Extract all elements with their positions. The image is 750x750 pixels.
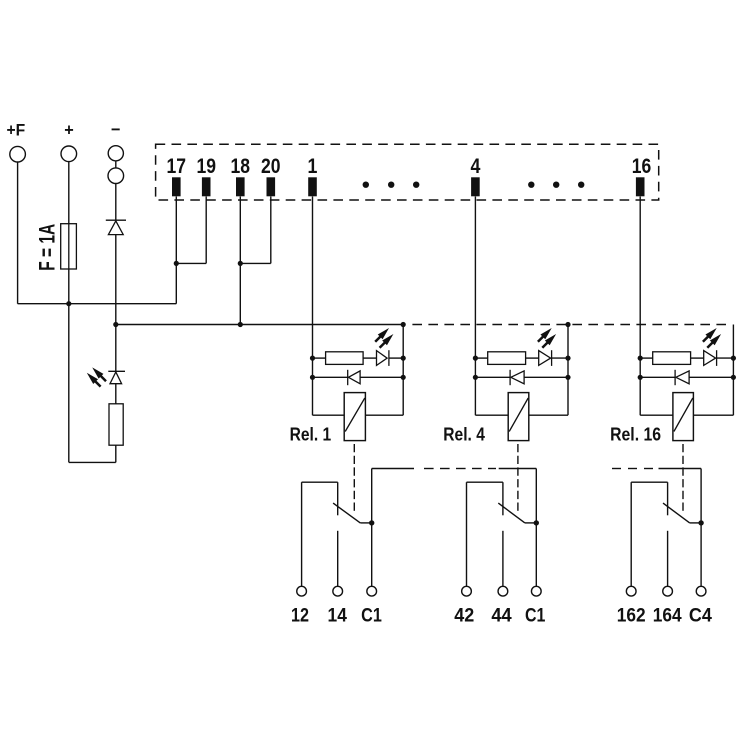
svg-text:+F: +F: [7, 121, 26, 140]
svg-text:1: 1: [308, 155, 318, 178]
svg-text:Rel. 16: Rel. 16: [610, 425, 661, 445]
svg-text:C1: C1: [361, 605, 382, 626]
svg-text:20: 20: [261, 155, 281, 178]
svg-text:18: 18: [231, 155, 251, 178]
svg-text:16: 16: [632, 155, 652, 178]
svg-text:19: 19: [196, 155, 216, 178]
svg-text:14: 14: [328, 605, 348, 626]
svg-text:C1: C1: [525, 605, 546, 626]
svg-text:164: 164: [653, 605, 682, 626]
svg-text:12: 12: [291, 605, 309, 626]
svg-text:−: −: [111, 120, 121, 139]
svg-text:162: 162: [617, 605, 646, 626]
svg-text:44: 44: [491, 605, 512, 626]
svg-text:17: 17: [167, 155, 187, 178]
svg-text:+: +: [64, 121, 74, 140]
svg-text:42: 42: [454, 605, 474, 626]
svg-text:F = 1A: F = 1A: [34, 224, 59, 271]
svg-text:C4: C4: [689, 605, 712, 626]
svg-text:Rel. 4: Rel. 4: [443, 425, 485, 445]
svg-text:4: 4: [470, 155, 480, 178]
svg-text:Rel. 1: Rel. 1: [290, 425, 332, 445]
